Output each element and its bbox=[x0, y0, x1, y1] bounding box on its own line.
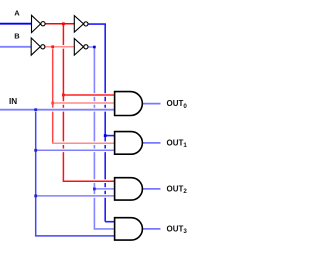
svg-text:B: B bbox=[14, 32, 20, 41]
svg-text:IN: IN bbox=[9, 97, 17, 106]
svg-text:A: A bbox=[14, 9, 20, 18]
